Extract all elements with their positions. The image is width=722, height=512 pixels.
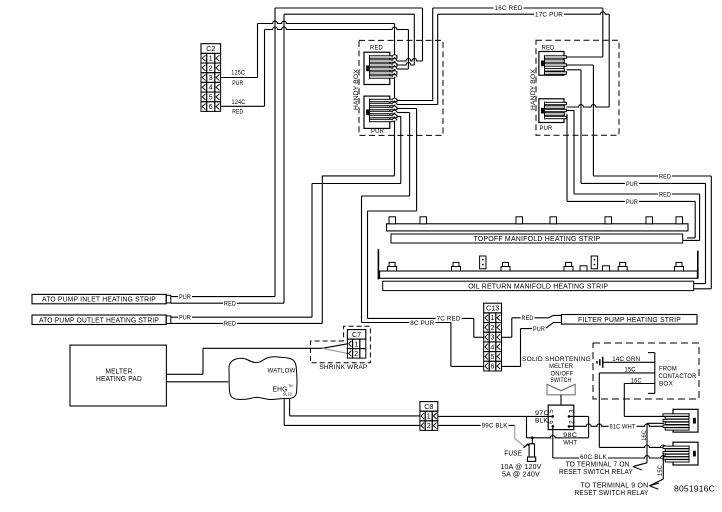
svg-text:RESET SWITCH RELAY: RESET SWITCH RELAY — [559, 469, 633, 476]
wire Y-split into C7 — [322, 344, 347, 354]
wire 14C GRN — [603, 356, 655, 363]
wire nut (61C WHT junction) — [663, 409, 698, 432]
wire 98C WHT from switch bottom pin — [562, 432, 578, 446]
wires right box nut branches — [567, 57, 610, 201]
connector C8 — [420, 402, 438, 431]
wire ATO inlet PUR riser to top — [275, 8, 423, 297]
svg-text:RED: RED — [659, 174, 671, 181]
wire 16C vertical to terminal 7 — [642, 423, 664, 463]
svg-text:3: 3 — [569, 409, 576, 413]
wires left RED nut to top wires — [397, 8, 423, 69]
svg-text:1: 1 — [491, 315, 495, 322]
svg-text:PUR: PUR — [533, 326, 545, 333]
svg-text:2: 2 — [491, 325, 495, 332]
svg-text:BLK: BLK — [535, 418, 549, 425]
wire nut (60C BLK junction) — [663, 442, 698, 465]
svg-text:PUR: PUR — [232, 80, 243, 87]
ATO pump inlet heating strip — [32, 294, 171, 303]
topoff manifold heating strip bar — [387, 217, 689, 231]
wire 97C BLK C8 pin1 to switch — [438, 410, 550, 425]
svg-text:SOLID SHORTENING: SOLID SHORTENING — [522, 356, 591, 363]
svg-text:60C BLK: 60C BLK — [580, 454, 608, 461]
wire melter pad to EHG — [166, 381, 228, 383]
svg-text:SHRINK WRAP: SHRINK WRAP — [319, 364, 367, 371]
svg-text:2: 2 — [354, 351, 358, 358]
wire 16C (contactor) — [624, 378, 673, 417]
wire 16C RED (left box PUR nut to right box RED nut) — [433, 5, 603, 100]
svg-text:5: 5 — [491, 354, 495, 361]
svg-text:WHT: WHT — [563, 439, 577, 446]
svg-text:BOX: BOX — [659, 381, 673, 388]
wire RED to topoff strip (right) — [593, 174, 711, 289]
svg-text:17C PUR: 17C PUR — [535, 11, 563, 18]
svg-text:7C RED: 7C RED — [437, 316, 461, 323]
svg-text:C13: C13 — [486, 304, 499, 313]
wire switch mid pin riser to fuse line — [569, 416, 589, 437]
connector C7 — [347, 330, 365, 359]
from contactor box (dashed) — [593, 343, 699, 399]
svg-text:124C: 124C — [232, 99, 246, 106]
shrink wrap dashed outline — [311, 326, 371, 371]
svg-text:125C: 125C — [231, 70, 245, 77]
wire RED to oil return strip — [574, 192, 700, 241]
svg-text:SL10: SL10 — [283, 392, 292, 397]
melter heating pad — [70, 345, 166, 406]
ground symbol — [597, 357, 603, 368]
wire outlet PUR — [171, 184, 401, 322]
hop marks on nut stubs at pass-through — [392, 55, 397, 121]
svg-text:PUR: PUR — [626, 181, 638, 188]
svg-text:14C GRN: 14C GRN — [612, 356, 640, 363]
svg-text:6: 6 — [209, 104, 213, 111]
wire 60C BLK — [553, 426, 673, 461]
contactor bracket — [648, 353, 655, 394]
annotation to terminal 9 — [575, 479, 664, 497]
wire 7C RED branch (left) — [368, 211, 417, 318]
wire 8C PUR branch (left) — [362, 196, 410, 323]
svg-text:C2: C2 — [206, 44, 215, 53]
svg-text:ATO PUMP INLET HEATING STRIP: ATO PUMP INLET HEATING STRIP — [42, 297, 156, 304]
svg-text:16C RED: 16C RED — [495, 5, 523, 12]
svg-text:15C: 15C — [625, 367, 636, 374]
svg-text:RED: RED — [370, 44, 383, 51]
rocker symbol — [547, 384, 575, 405]
svg-text:MELTER: MELTER — [106, 368, 133, 375]
svg-text:SWITCH: SWITCH — [550, 377, 571, 384]
svg-text:WATLOW: WATLOW — [268, 368, 297, 375]
svg-text:99C BLK: 99C BLK — [482, 423, 509, 430]
svg-text:15C: 15C — [658, 465, 664, 476]
svg-text:3: 3 — [209, 75, 213, 82]
svg-text:3: 3 — [491, 335, 495, 342]
ATO pump outlet heating strip — [32, 315, 171, 325]
wires left PUR nut branches — [397, 101, 438, 212]
svg-text:HANDY BOX: HANDY BOX — [353, 69, 360, 110]
annotation to terminal 7 — [559, 461, 647, 475]
connector C13 — [484, 303, 502, 371]
right handy box (dashed) — [530, 40, 619, 135]
svg-text:FUSE: FUSE — [504, 450, 522, 457]
svg-text:MELTER: MELTER — [549, 363, 573, 370]
right handy box RED wire nut — [539, 44, 567, 75]
svg-text:PUR: PUR — [371, 128, 384, 135]
svg-text:RED: RED — [522, 315, 534, 322]
svg-text:97C: 97C — [535, 410, 549, 417]
svg-text:2: 2 — [427, 423, 431, 430]
svg-text:FROM: FROM — [659, 365, 677, 372]
wire EHG to C8 pin2 — [284, 399, 420, 425]
svg-text:2: 2 — [209, 65, 213, 72]
svg-text:HANDY BOX: HANDY BOX — [530, 69, 537, 110]
wire C13 pin6 to filter pump strip (PUR) — [502, 323, 562, 367]
wire 15C (contactor) — [599, 367, 673, 448]
svg-text:CONTACTOR: CONTACTOR — [659, 373, 697, 380]
svg-text:RED: RED — [224, 301, 236, 308]
wire inlet PUR — [171, 294, 275, 301]
wire 125C PUR from C2 pin3 — [221, 21, 395, 87]
svg-text:OIL RETURN MANIFOLD HEATING ST: OIL RETURN MANIFOLD HEATING STRIP — [468, 284, 608, 291]
svg-text:16C: 16C — [631, 378, 642, 385]
wire EHG to C8 pin1 — [290, 399, 420, 416]
wire pass-through 125C vertical in left box — [394, 24, 396, 176]
svg-text:C7: C7 — [352, 330, 361, 339]
svg-text:4: 4 — [491, 344, 495, 351]
svg-text:61C WHT: 61C WHT — [610, 424, 636, 431]
wire ATO inlet RED riser — [284, 14, 414, 303]
topoff manifold label bar — [391, 234, 683, 243]
svg-text:TOPOFF MANIFOLD HEATING STRIP: TOPOFF MANIFOLD HEATING STRIP — [473, 236, 600, 243]
svg-text:TO TERMINAL 9 ON: TO TERMINAL 9 ON — [580, 483, 648, 490]
svg-text:1: 1 — [354, 341, 358, 348]
svg-text:RED: RED — [542, 44, 555, 51]
svg-text:1: 1 — [209, 56, 213, 63]
oil return manifold heating strip bar — [378, 249, 697, 279]
watlow EHG controller blob — [229, 357, 297, 400]
svg-text:HEATING PAD: HEATING PAD — [96, 376, 142, 383]
wire 8C PUR to C13 pin6 — [362, 320, 484, 367]
svg-text:FILTER PUMP HEATING STRIP: FILTER PUMP HEATING STRIP — [578, 317, 681, 324]
switch S1 box — [548, 405, 576, 430]
svg-text:4: 4 — [209, 85, 213, 92]
svg-text:RESET SWITCH RELAY: RESET SWITCH RELAY — [575, 490, 649, 497]
wire PUR to oil return strip — [567, 199, 695, 238]
left handy box (dashed) — [353, 40, 443, 135]
svg-text:RED: RED — [659, 192, 671, 199]
svg-text:PUR: PUR — [626, 199, 638, 206]
svg-text:RED: RED — [224, 321, 236, 328]
svg-text:5: 5 — [548, 409, 555, 413]
svg-text:PUR: PUR — [179, 315, 191, 322]
svg-text:PUR: PUR — [179, 294, 191, 301]
fuse F1 — [501, 416, 589, 478]
solid shortening melter on/off switch labels — [522, 356, 591, 384]
svg-text:98C: 98C — [563, 432, 577, 439]
wire 61C WHT — [569, 424, 673, 431]
svg-text:6: 6 — [491, 364, 495, 371]
svg-text:16C: 16C — [642, 429, 648, 440]
wire inlet RED — [171, 301, 284, 308]
left handy box RED wire nut — [364, 44, 397, 84]
wire 7C RED to C13 pin3 — [368, 316, 484, 338]
wire 17C PUR (left box PUR nut to right box PUR nut) — [438, 11, 610, 107]
svg-text:RED: RED — [232, 109, 243, 116]
drawing number 8051916C — [674, 484, 715, 494]
left handy box PUR wire nut — [364, 96, 397, 135]
svg-text:8C PUR: 8C PUR — [410, 320, 434, 327]
svg-text:5A @ 240V: 5A @ 240V — [502, 472, 540, 479]
right handy box PUR wire nut — [539, 99, 567, 132]
filter pump heating strip — [561, 315, 697, 325]
svg-text:8051916C: 8051916C — [674, 484, 715, 494]
svg-text:C8: C8 — [424, 402, 433, 411]
wire PUR to topoff strip — [581, 181, 706, 284]
svg-text:TO TERMINAL 7 ON: TO TERMINAL 7 ON — [566, 461, 630, 468]
wire C13 pin3 to filter pump strip (RED) — [502, 315, 562, 337]
svg-text:1: 1 — [427, 414, 431, 421]
svg-text:2: 2 — [569, 420, 576, 424]
wire 99C BLK C8 pin2 to fuse holder — [438, 423, 525, 447]
svg-text:5: 5 — [209, 94, 213, 101]
svg-text:PUR: PUR — [540, 125, 553, 132]
connector C2 — [201, 44, 221, 112]
svg-text:10A @ 120V: 10A @ 120V — [501, 464, 542, 471]
wire 124C RED from C2 pin6 — [221, 27, 409, 115]
wire outlet RED — [171, 176, 395, 328]
oil return manifold label bar — [383, 281, 694, 291]
svg-text:ATO PUMP OUTLET HEATING STRIP: ATO PUMP OUTLET HEATING STRIP — [39, 317, 159, 324]
wire 15C to terminal 9 — [658, 453, 664, 479]
svg-text:6: 6 — [548, 420, 555, 424]
svg-text:TM: TM — [288, 384, 293, 388]
wire melter pad to shrink wrap/C7 — [166, 348, 322, 374]
